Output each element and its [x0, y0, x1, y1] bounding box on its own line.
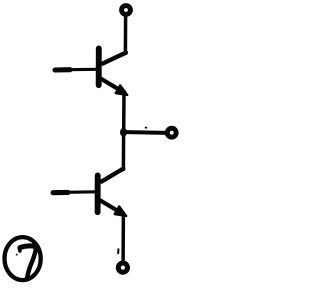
pin number balloon circle: [5, 237, 41, 280]
transistor Q1 base lead: [55, 67, 70, 72]
junction (output node): [121, 128, 127, 136]
wire output node to terminal T2: [124, 130, 167, 135]
terminal T2 (output, right): [167, 128, 176, 137]
transistor Q2 emitter arrowhead: [115, 206, 127, 216]
transistor Q1 emitter arrowhead: [116, 85, 128, 95]
transistor Q2 base lead: [53, 190, 68, 195]
transistor Q1 collector lead: [103, 53, 126, 64]
wire top terminal to Q1 collector: [124, 16, 128, 54]
speck above output wire: [145, 127, 148, 129]
tick mark beside wire: [117, 249, 119, 253]
wire output node to Q2 collector: [122, 133, 126, 170]
transistor Q2 collector lead: [102, 169, 124, 182]
wire Q1 emitter to output node: [122, 92, 126, 133]
terminal T3 (bottom): [118, 263, 127, 272]
transistor Q1 emitter lead: [101, 79, 119, 90]
terminal T1 (top): [122, 6, 131, 15]
transistor Q1 base bar: [96, 48, 102, 85]
wire Q2 emitter to bottom terminal: [121, 214, 125, 262]
speck inside balloon: [16, 254, 18, 256]
transistor Q2 base bar: [95, 175, 101, 212]
pin number 7 digit: [20, 246, 36, 248]
transistor Q2 emitter lead: [100, 200, 118, 211]
